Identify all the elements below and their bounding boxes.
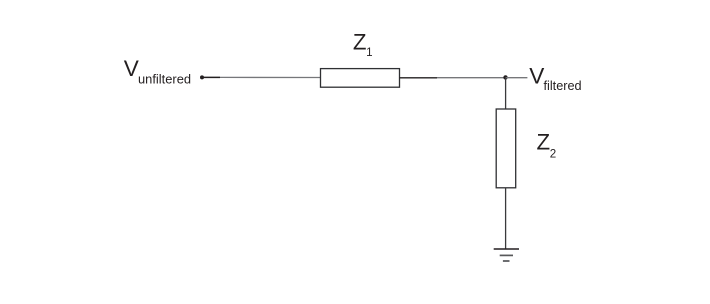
- ground top bar: [494, 248, 519, 250]
- wire output node down to Z2: [505, 78, 507, 110]
- wire Z2 to ground: [505, 188, 507, 249]
- svg-text:V: V: [529, 64, 544, 89]
- svg-text:Z: Z: [353, 30, 367, 55]
- svg-text:Z: Z: [537, 130, 551, 155]
- svg-text:unfiltered: unfiltered: [138, 72, 191, 87]
- node Vunfiltered input dot: [200, 75, 204, 79]
- wire input node to Z1 (gray part): [220, 76, 321, 78]
- wire Z1 to output node (gray part): [437, 77, 506, 79]
- impedance Z1 body: [321, 69, 400, 88]
- ground bottom bar: [503, 260, 510, 262]
- impedance Z2 body: [496, 109, 516, 188]
- svg-text:V: V: [124, 56, 139, 81]
- svg-text:filtered: filtered: [544, 79, 582, 93]
- node Vfiltered junction dot: [503, 75, 507, 79]
- wire Z1 to output node (dark part): [400, 77, 438, 79]
- svg-text:1: 1: [366, 46, 372, 59]
- svg-text:2: 2: [550, 147, 556, 160]
- ground middle bar: [500, 254, 513, 256]
- wire input node to Z1 (dark part): [202, 76, 220, 78]
- wire output node stub to Vfiltered label: [506, 77, 528, 79]
